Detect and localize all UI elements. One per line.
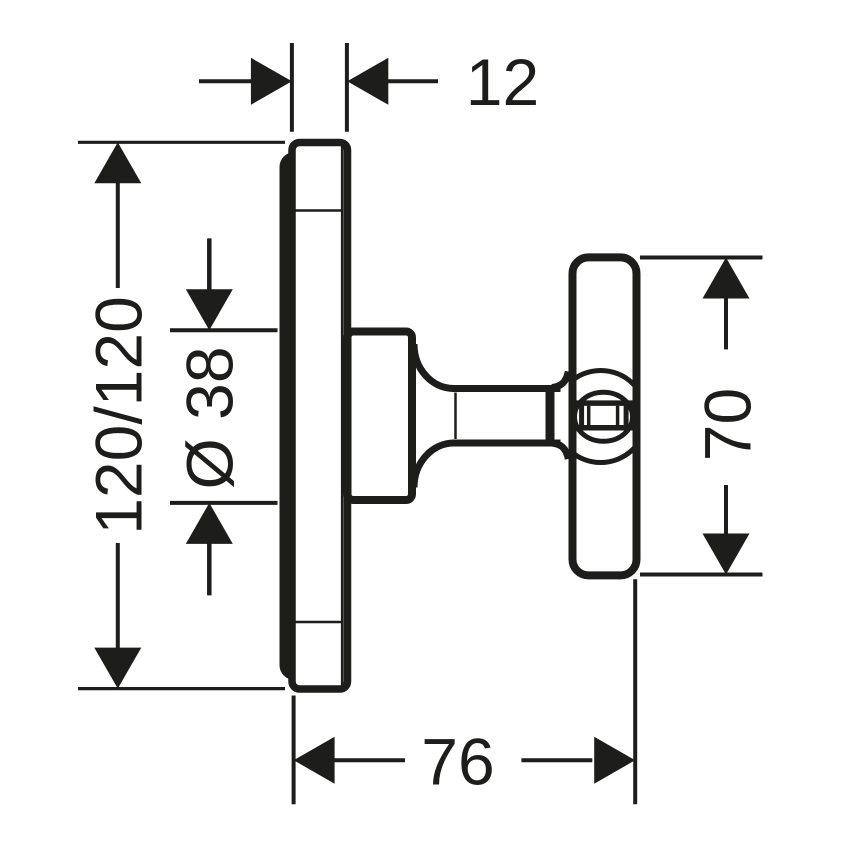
dim 120/120: upper tail xyxy=(116,182,120,288)
dim 76: left tail xyxy=(333,758,405,762)
hub pin inner right line xyxy=(616,406,620,426)
handle bar (front silhouette) xyxy=(573,257,637,575)
dim 12: left extension line xyxy=(290,43,294,132)
stem neck tangent tick xyxy=(454,393,457,440)
dim 12: left tail xyxy=(199,79,253,83)
dim D38: down arrow xyxy=(186,289,233,330)
dim 76: left arrow xyxy=(294,737,335,784)
svg-text:70: 70 xyxy=(691,388,765,461)
dim 120/120: top extension line xyxy=(78,141,285,144)
dim D38: up arrow xyxy=(186,503,233,544)
dim 12: right extension line xyxy=(345,43,349,132)
plate corner tangent line (upper) xyxy=(295,209,344,212)
dim 70: lower tail xyxy=(724,485,728,534)
svg-text:76: 76 xyxy=(421,725,494,799)
stem neck bottom line xyxy=(452,440,561,447)
hub cone upper curl xyxy=(552,372,568,388)
plate front-face edge line (thin vertical) xyxy=(341,146,344,685)
dim D38: bottom extension line xyxy=(170,501,278,505)
hub pin left end xyxy=(579,403,584,428)
dim 70: down arrow xyxy=(703,534,750,575)
dim 70: top extension line xyxy=(640,256,763,260)
handle hub large circle xyxy=(555,371,647,463)
escutcheon back flange (left lip behind plate) xyxy=(285,157,331,675)
dim 70: up arrow xyxy=(703,258,750,299)
escutcheon plate (side view, 12mm thick) xyxy=(292,143,348,690)
hub pin top line xyxy=(574,400,634,406)
dim 76: right arrow xyxy=(594,737,635,784)
taper fillet lower xyxy=(414,443,454,488)
svg-text:Ø 38: Ø 38 xyxy=(173,346,247,489)
dim 120/120: down arrow xyxy=(94,648,141,689)
valve sleeve base (Ø38 collar) xyxy=(348,332,413,501)
dim D38: top extension line xyxy=(170,328,278,332)
dim 12: left arrow xyxy=(251,58,292,105)
dim D38: upper tail xyxy=(207,238,212,292)
taper fillet upper xyxy=(414,344,454,389)
dim 12: right tail xyxy=(387,79,438,83)
dim 76: right tail xyxy=(521,758,592,762)
handle hub boss circle xyxy=(575,392,633,441)
plate corner tangent line (lower) xyxy=(295,621,344,624)
hub pin right end xyxy=(624,403,629,428)
dim 12: right arrow xyxy=(347,58,388,105)
hub pin bottom line xyxy=(574,425,634,431)
hub pin inner left line xyxy=(587,406,591,426)
stem flange bar xyxy=(546,386,555,446)
dim 120/120: lower tail xyxy=(116,543,120,648)
svg-text:120/120: 120/120 xyxy=(82,296,156,535)
hub cone lower curl xyxy=(552,443,568,459)
dim 76: left extension line xyxy=(292,696,296,805)
svg-text:12: 12 xyxy=(466,45,539,119)
dim 120/120: up arrow xyxy=(94,142,141,183)
dim 70: upper tail xyxy=(724,297,728,349)
stem neck top line xyxy=(452,385,561,392)
dim 120/120: bottom extension line xyxy=(78,687,285,690)
dim D38: lower tail xyxy=(207,542,212,595)
dim 76: right extension line xyxy=(633,579,637,804)
dim 70: bottom extension line xyxy=(640,573,763,577)
